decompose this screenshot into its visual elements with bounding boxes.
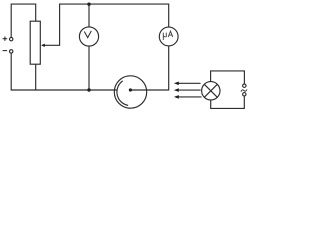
plus sign bbox=[3, 37, 8, 41]
terminal + bbox=[10, 37, 13, 40]
phototube cathode arc bbox=[117, 81, 128, 106]
microammeter M1 circle bbox=[159, 27, 178, 46]
phototube envelope bbox=[114, 76, 146, 108]
lamp X stroke 1 bbox=[204, 84, 217, 97]
minus sign bbox=[3, 50, 8, 52]
AC tilde bbox=[241, 90, 247, 92]
wire: rheostat wiper arrow to top rail bbox=[44, 4, 169, 45]
lamp X stroke 2 bbox=[204, 84, 217, 97]
lamp L1 circle bbox=[202, 82, 220, 100]
node: top junction bbox=[87, 2, 90, 5]
wire: lower AC terminal down, across, up to lamp bottom bbox=[211, 96, 245, 108]
wire: rheostat bottom lead bbox=[35, 64, 37, 90]
wiper arrowhead bbox=[41, 44, 45, 47]
wire: + terminal up, across, down to rheostat top bbox=[11, 4, 36, 37]
phototube anode dot bbox=[129, 88, 132, 91]
voltmeter V1 circle bbox=[79, 27, 98, 46]
wire: voltmeter top lead bbox=[88, 4, 90, 27]
AC terminal upper bbox=[243, 84, 246, 87]
wire: voltmeter bottom lead bbox=[88, 46, 90, 90]
wire: microammeter bottom lead down and left to anode bbox=[131, 46, 169, 90]
resistor R1 (rheostat body) bbox=[30, 21, 40, 64]
terminal - bbox=[10, 50, 13, 53]
wire: - terminal down and bottom rail to phototube cathode bbox=[11, 53, 117, 90]
wire: lamp top lead to AC terminal bbox=[211, 71, 245, 84]
voltmeter V letter bbox=[84, 31, 91, 38]
light ray arrow 2 bbox=[178, 89, 200, 91]
node: bottom junction bbox=[87, 88, 90, 91]
AC terminal lower bbox=[243, 93, 246, 96]
light ray arrow 3 bbox=[178, 96, 201, 98]
microammeter label uA bbox=[163, 31, 173, 40]
light ray arrow 1 bbox=[178, 82, 200, 84]
